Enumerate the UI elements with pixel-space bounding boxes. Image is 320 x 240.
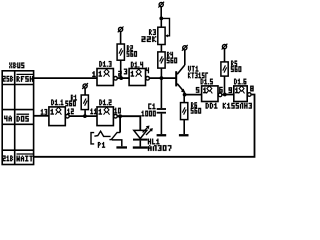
- label R1 560: [71, 95, 77, 101]
- wire D1.3 out to D1.4: [118, 77, 130, 79]
- wire D1.2 out to HL1 drop: [118, 116, 141, 130]
- pin 4A label: [4, 116, 12, 122]
- label P1: [98, 142, 105, 148]
- op-amp D1.4 inverter: [129, 69, 149, 86]
- node junction emitter/R6: [183, 93, 187, 97]
- node junction R4/C1/base: [160, 76, 164, 80]
- label R6 560: [191, 102, 197, 108]
- ground for C1: [157, 134, 167, 136]
- op-amp D1.3 inverter: [97, 69, 117, 86]
- pin 25B label: [3, 76, 13, 82]
- label DD1 К155ЛН3: [206, 103, 252, 109]
- net RFSH label: [17, 76, 34, 82]
- op-amp D1.5 inverter: [202, 86, 222, 102]
- label VT1 КТ315Г: [188, 66, 198, 72]
- node junction R2/D1.3: [119, 76, 123, 80]
- pin 10: [114, 108, 120, 114]
- resistor R5: [221, 62, 228, 95]
- transistor VT1: [175, 65, 185, 95]
- wire D1.5 out to D1.6: [222, 94, 234, 96]
- wire D1.1 out to D1.2: [70, 115, 98, 117]
- connector X1 XBUS block: [2, 71, 33, 165]
- op-amp D1.1 inverter: [49, 107, 69, 126]
- label R4 560: [167, 52, 173, 58]
- label C1 1000: [148, 103, 155, 109]
- pin 11: [90, 108, 96, 114]
- piezo P1: [91, 131, 122, 146]
- resistor R2: [117, 44, 124, 78]
- net DOS label: [17, 116, 29, 122]
- label R3 22K: [149, 29, 156, 35]
- op-amp D1.2 inverter: [97, 107, 117, 126]
- pin 21B label: [3, 155, 13, 161]
- wire D1.4 out to VT1 base: [150, 77, 176, 79]
- power symbol above VT1 collector: [182, 45, 188, 65]
- pin 6: [219, 87, 222, 93]
- label R2 560: [127, 45, 133, 51]
- label R5 560: [231, 61, 237, 67]
- resistor R3 22K potentiometer: [158, 18, 170, 52]
- pin 2: [118, 71, 121, 77]
- op-amp D1.6 inverter: [234, 86, 251, 102]
- wire VT1 emitter to D1.5: [185, 94, 202, 96]
- net WAIT label: [17, 156, 33, 162]
- wire junction down to P1: [119, 116, 121, 132]
- pin 13: [41, 109, 47, 115]
- label D1.3: [99, 61, 111, 67]
- resistor R6: [181, 95, 188, 135]
- pin 5: [196, 87, 199, 93]
- pin 3: [124, 69, 127, 75]
- ground for HL1: [133, 146, 148, 148]
- LED HL1: [133, 126, 153, 147]
- label D1.5: [201, 79, 213, 85]
- label D1.1: [51, 99, 63, 105]
- wire WAIT bottom bus to D1.6 output: [34, 95, 255, 157]
- node junction D1.2/P1: [118, 114, 122, 118]
- wire RFSH to D1.3: [34, 77, 97, 79]
- pin 9: [229, 87, 232, 93]
- label D1.2: [99, 99, 111, 105]
- power symbol above R3: [158, 2, 164, 19]
- power symbol above R2: [118, 27, 124, 45]
- resistor R1: [81, 95, 88, 116]
- pin 1: [92, 71, 95, 77]
- capacitor C1: [157, 78, 166, 134]
- node junction R5/D1.5: [223, 93, 227, 97]
- power symbol above R5: [222, 44, 228, 62]
- ground for P1: [116, 146, 127, 148]
- node junction R1/D1.1: [83, 114, 87, 118]
- ground for R6: [179, 134, 189, 136]
- label XBUS: [9, 62, 24, 68]
- pin 8: [250, 86, 253, 92]
- label HL1 АЛ307: [148, 139, 160, 145]
- pin 4: [146, 67, 149, 73]
- node junction R3 top: [159, 17, 163, 21]
- label D1.6: [234, 79, 246, 85]
- power symbol above R1: [82, 83, 88, 95]
- resistor R4: [158, 52, 165, 78]
- pin 12: [67, 108, 73, 114]
- label D1.4: [131, 62, 143, 68]
- wire DOS to D1.1: [34, 115, 49, 117]
